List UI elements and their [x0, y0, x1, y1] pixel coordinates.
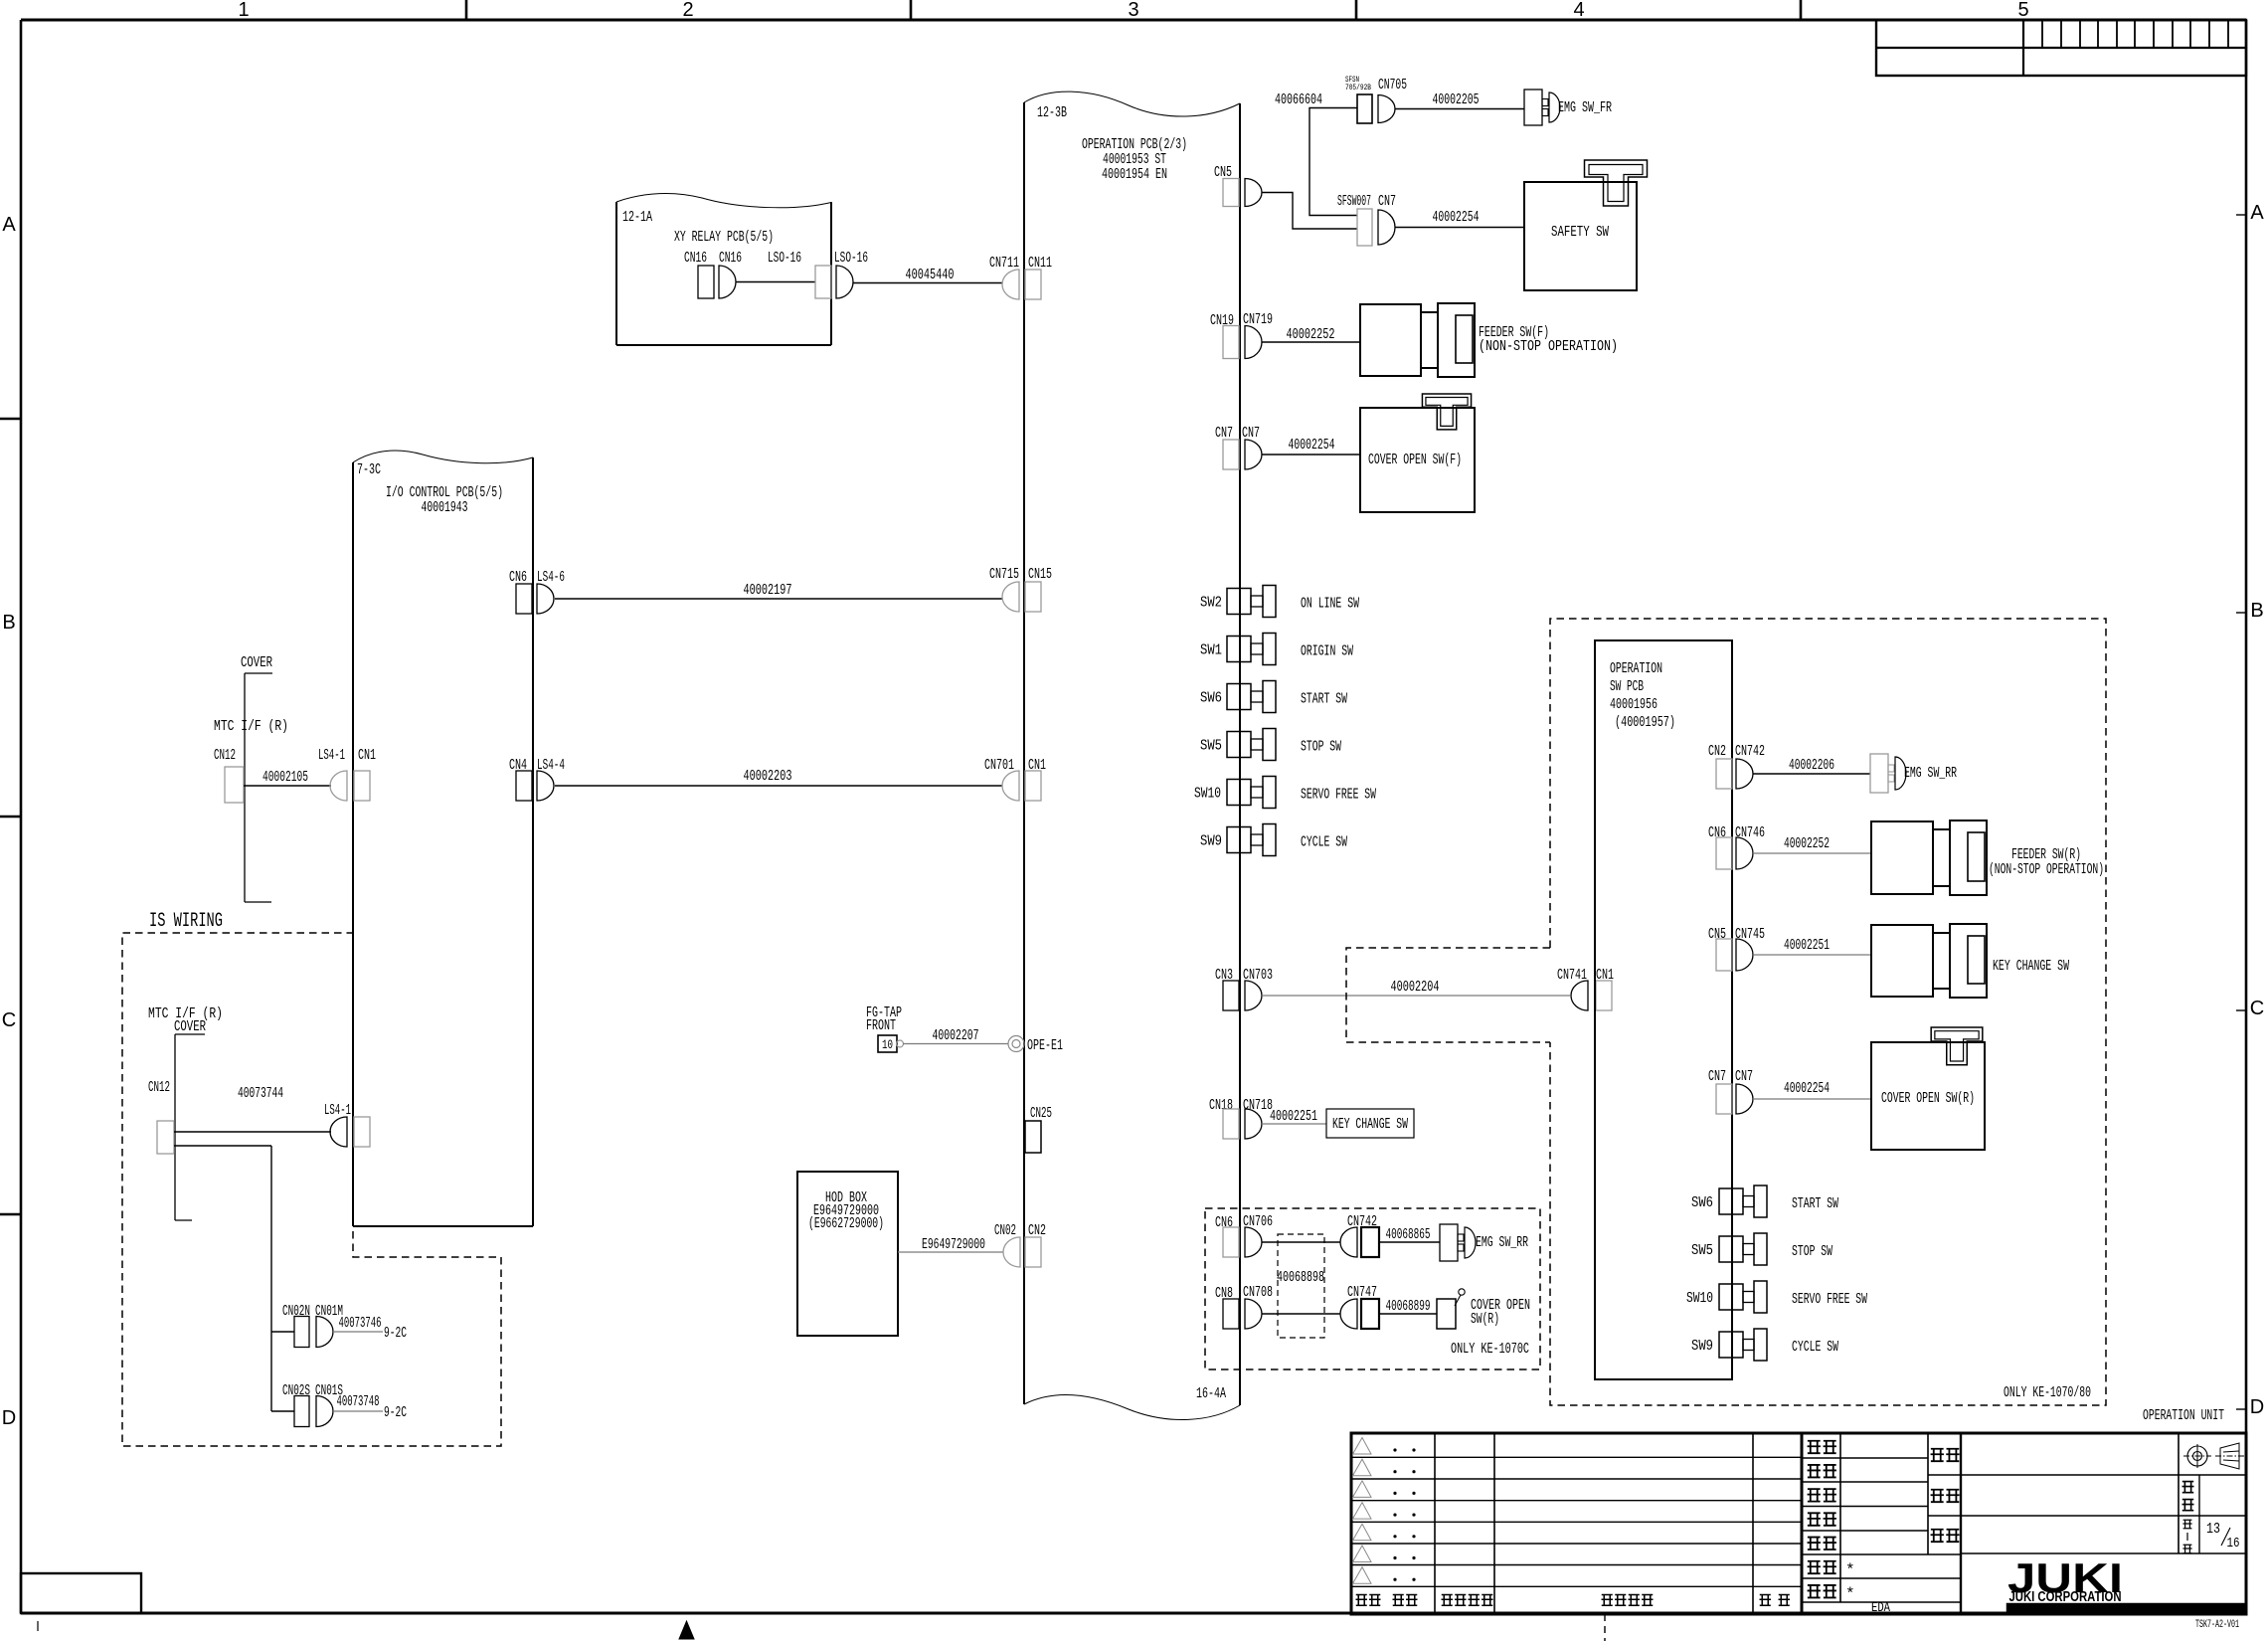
svg-text:40002204: 40002204 [1391, 979, 1440, 996]
svg-text:CN708: CN708 [1243, 1284, 1273, 1301]
svg-text:A: A [2250, 202, 2264, 224]
svg-text:D: D [2250, 1396, 2264, 1418]
svg-text:SERVO FREE SW: SERVO FREE SW [1301, 787, 1376, 804]
wire CN5 to SFSW007 [1262, 193, 1357, 230]
svg-text:CN18: CN18 [1209, 1097, 1233, 1114]
connector CN11 plug [1025, 270, 1041, 299]
svg-text:LSO-16: LSO-16 [768, 250, 801, 267]
svg-text:CN02N: CN02N [282, 1303, 310, 1320]
svg-text:*: * [1845, 1585, 1855, 1603]
svg-text:KEY CHANGE SW: KEY CHANGE SW [1993, 958, 2069, 975]
switch EMG SW_RR symbol 1070C [1440, 1224, 1458, 1261]
svg-text:CN12: CN12 [214, 747, 236, 764]
svg-text:CN7: CN7 [1378, 193, 1396, 210]
connector LS4-1 socket upper [330, 771, 347, 801]
wire 40002251 key change R [1753, 954, 1871, 956]
svg-text:40002203: 40002203 [744, 768, 792, 785]
svg-text:CN02S: CN02S [282, 1382, 310, 1399]
connector CN5 plug right [1716, 939, 1732, 971]
svg-text:COVER: COVER [241, 654, 272, 671]
svg-text:CN16: CN16 [719, 250, 742, 267]
OPERATION SW PCB box [1595, 640, 1732, 1379]
bottom-left corner box [21, 1573, 141, 1613]
logo black bar [2006, 1603, 2246, 1614]
connector CN746 socket [1736, 837, 1753, 869]
svg-text:40002205: 40002205 [1433, 91, 1480, 108]
svg-text:*: * [1845, 1561, 1855, 1579]
svg-text:SW6: SW6 [1691, 1194, 1713, 1211]
connector CN1 plug upper [354, 771, 370, 801]
svg-text:SW9: SW9 [1200, 833, 1222, 850]
svg-text:CN25: CN25 [1030, 1105, 1052, 1122]
operation pcb top torn edge [1024, 91, 1240, 116]
small tick below border left [37, 1621, 39, 1631]
KEY CHANGE SW label box [1326, 1109, 1414, 1138]
connector CN7 socket top [1378, 210, 1395, 245]
connector LS4-1 socket lower [330, 1117, 347, 1147]
svg-text:CN1: CN1 [358, 747, 376, 764]
connector CN706 socket [1245, 1227, 1262, 1257]
operation pcb 12-3B right edge [1239, 103, 1241, 1405]
svg-text:4: 4 [1573, 0, 1584, 21]
connector CN742 plug 1070C [1361, 1227, 1379, 1257]
svg-text:SFSW007: SFSW007 [1337, 193, 1371, 210]
svg-text:CN705: CN705 [1378, 77, 1407, 93]
svg-text:SW6: SW6 [1200, 690, 1222, 707]
labels 型式 品番 品名 [1931, 1449, 1944, 1461]
connector CN745 socket [1736, 939, 1753, 971]
wire 40002203 [555, 785, 1002, 787]
svg-text:LS4-6: LS4-6 [537, 569, 565, 586]
title block revision table lines [1434, 1433, 1436, 1614]
wire 40068899 [1379, 1313, 1437, 1315]
wire 40002205 [1395, 108, 1524, 110]
svg-text:B: B [2, 612, 15, 634]
svg-text:SW1: SW1 [1200, 642, 1222, 659]
svg-text:CN02: CN02 [994, 1222, 1016, 1239]
svg-text:OPE-E1: OPE-E1 [1027, 1037, 1063, 1054]
connector LS4-6 socket [537, 584, 554, 614]
connector CN19 plug [1223, 326, 1239, 359]
svg-text:E9649729000: E9649729000 [922, 1236, 985, 1253]
connector CN1 plug [1025, 771, 1041, 801]
svg-text:40068865: 40068865 [1386, 1226, 1431, 1243]
cover ground line lower [175, 1033, 205, 1035]
connector LSO-16 socket [836, 266, 853, 298]
title block outer frame [1351, 1433, 2246, 1614]
svg-text:COVER OPEN SW(F): COVER OPEN SW(F) [1368, 452, 1462, 468]
svg-text:5: 5 [2017, 0, 2028, 21]
connector CN719 socket [1245, 326, 1262, 359]
svg-text:JUKI CORPORATION: JUKI CORPORATION [2009, 1589, 2122, 1605]
svg-text:A: A [2, 214, 16, 236]
labels 承認 検図 設計 製図 作成 保管 類似 [1808, 1441, 1821, 1453]
svg-text:CN12: CN12 [148, 1079, 170, 1096]
svg-text:40001956: 40001956 [1610, 696, 1657, 713]
svg-text:SW10: SW10 [1686, 1290, 1713, 1307]
approval label column lines [1839, 1433, 1841, 1602]
svg-text:COVER: COVER [174, 1018, 206, 1035]
wire 40002254 cover open R [1753, 1098, 1871, 1100]
switch SW6 right [1719, 1188, 1743, 1214]
connector CN3 plug [1223, 981, 1239, 1010]
switch SW9 [1227, 827, 1251, 853]
switch SW2 [1227, 589, 1251, 615]
revision table triangles and dots [1353, 1438, 1372, 1455]
svg-text:40002251: 40002251 [1784, 937, 1830, 954]
COVER OPEN SW(R) box [1871, 1042, 1985, 1150]
svg-text:START SW: START SW [1792, 1195, 1838, 1212]
wire 40002254 to safety sw [1395, 227, 1524, 229]
HOD BOX [797, 1172, 898, 1336]
svg-text:LS4-1: LS4-1 [318, 747, 345, 764]
key change sw connector icon [1871, 925, 1933, 997]
svg-text:40002254: 40002254 [1784, 1080, 1830, 1097]
bottom center marker triangle [679, 1621, 694, 1639]
svg-text:12-3B: 12-3B [1037, 104, 1067, 121]
connector CN12 plug lower [157, 1121, 174, 1154]
connector CN01M socket [316, 1317, 333, 1348]
svg-text:SERVO FREE SW: SERVO FREE SW [1792, 1291, 1867, 1308]
connector CN16 plug [698, 266, 714, 298]
svg-text:40068899: 40068899 [1386, 1298, 1431, 1315]
svg-text:CN701: CN701 [984, 757, 1014, 774]
svg-text:FRONT: FRONT [866, 1017, 896, 1034]
svg-text:40002254: 40002254 [1289, 437, 1335, 454]
svg-text:COVER OPEN SW(R): COVER OPEN SW(R) [1881, 1090, 1975, 1107]
xy relay pcb 12-1A box [615, 202, 617, 345]
svg-text:40002207: 40002207 [933, 1027, 979, 1044]
svg-text:40073748: 40073748 [337, 1393, 380, 1410]
connector CN7 plug right [1716, 1084, 1732, 1114]
left ruler ticks [0, 418, 21, 421]
connector CN701 socket [1002, 771, 1019, 801]
svg-text:CN7: CN7 [1735, 1068, 1753, 1085]
switch SW5 [1227, 732, 1251, 758]
svg-text:EMG SW_RR: EMG SW_RR [1904, 765, 1957, 782]
wire CN706 to CN742 [1262, 1241, 1340, 1243]
svg-text:CN19: CN19 [1210, 312, 1234, 329]
svg-text:STOP SW: STOP SW [1301, 739, 1341, 756]
svg-text:9-2C: 9-2C [384, 1404, 407, 1421]
svg-text:SW PCB: SW PCB [1610, 678, 1644, 695]
connector CN703 socket [1245, 981, 1262, 1010]
connector CN747 socket [1340, 1299, 1357, 1329]
svg-text:EDA: EDA [1871, 1600, 1890, 1616]
connector CN718 socket [1245, 1109, 1262, 1139]
bottom centerline dashed tick [1604, 1614, 1606, 1641]
connector CN7 socket front [1245, 440, 1262, 469]
svg-text:ORIGIN SW: ORIGIN SW [1301, 643, 1353, 660]
svg-text:40002206: 40002206 [1789, 757, 1834, 774]
svg-text:CN715: CN715 [989, 566, 1019, 583]
svg-text:16: 16 [2227, 1536, 2240, 1551]
connector CN747 plug [1361, 1299, 1379, 1329]
connector CN02 socket [1003, 1237, 1020, 1267]
ONLY KE-1070C dashed box [1205, 1208, 1540, 1369]
svg-text:40002105: 40002105 [262, 769, 308, 786]
wire 40073748 to 9-2C [333, 1410, 383, 1412]
svg-text:(NON-STOP OPERATION): (NON-STOP OPERATION) [1989, 861, 2104, 878]
connector CN2 plug [1025, 1237, 1041, 1267]
connector CN02S plug [294, 1396, 309, 1427]
ONLY KE-1070/80 dashed box [1550, 619, 2106, 1405]
svg-text:40002252: 40002252 [1784, 835, 1830, 852]
connector CN742 socket 1070C [1340, 1227, 1357, 1257]
svg-text:CN745: CN745 [1735, 926, 1765, 943]
svg-text:SW2: SW2 [1200, 595, 1222, 612]
cover ground line upper [245, 672, 272, 674]
svg-text:40068898: 40068898 [1277, 1269, 1324, 1286]
switch SW1 [1227, 637, 1251, 662]
wire 40002207 [903, 1043, 1008, 1045]
switch SW10 right [1719, 1284, 1743, 1310]
svg-text:CN6: CN6 [1215, 1214, 1233, 1231]
svg-text:2: 2 [682, 0, 693, 21]
svg-text:OPERATION UNIT: OPERATION UNIT [2143, 1407, 2224, 1424]
svg-text:40001943: 40001943 [422, 499, 468, 516]
svg-text:KEY CHANGE SW: KEY CHANGE SW [1332, 1116, 1408, 1133]
svg-text:10: 10 [882, 1037, 893, 1052]
connector CN18 plug [1223, 1109, 1239, 1139]
svg-text:SAFETY SW: SAFETY SW [1551, 224, 1609, 241]
wire CN16 to LSO-16 [736, 281, 815, 283]
svg-text:XY RELAY PCB(5/5): XY RELAY PCB(5/5) [674, 229, 774, 246]
wire E9649729000 [898, 1251, 1003, 1253]
label ページ vertical [2182, 1520, 2191, 1529]
svg-text:CN711: CN711 [989, 255, 1019, 272]
connector CN705 plug [1357, 94, 1372, 123]
svg-text:CYCLE SW: CYCLE SW [1301, 834, 1347, 851]
connector CN15 plug [1025, 582, 1041, 612]
connector CN1 plug on i/o pcb edge [354, 1117, 370, 1147]
svg-text:START SW: START SW [1301, 691, 1347, 708]
svg-text:12-1A: 12-1A [622, 209, 652, 226]
connector CN6 plug right [1716, 837, 1732, 869]
svg-text:ONLY KE-1070C: ONLY KE-1070C [1451, 1341, 1529, 1358]
wire 40045440 [853, 282, 1002, 284]
connector CN5 socket [1245, 179, 1262, 207]
svg-text:40073746: 40073746 [339, 1315, 382, 1332]
svg-text:705/92B: 705/92B [1345, 84, 1371, 92]
svg-text:LSO-16: LSO-16 [834, 250, 868, 267]
wire 40002204 [1262, 995, 1570, 997]
svg-text:C: C [2250, 998, 2264, 1019]
svg-text:CN718: CN718 [1243, 1097, 1273, 1114]
connector CN25 plug [1025, 1121, 1041, 1153]
svg-text:D: D [2, 1407, 16, 1429]
connector CN8 plug [1223, 1299, 1239, 1329]
wire 40002251 key change F [1262, 1123, 1326, 1125]
svg-text:CYCLE SW: CYCLE SW [1792, 1339, 1838, 1356]
model row lines 型式 品番 品名 [1928, 1474, 2246, 1476]
svg-text:SW5: SW5 [1200, 738, 1222, 755]
safety sw key icon [1585, 160, 1648, 206]
cover open F key icon [1422, 394, 1471, 430]
svg-text:40066604: 40066604 [1275, 91, 1322, 108]
top ruler ticks [465, 0, 468, 20]
connector LSO-16 plug [815, 266, 831, 298]
svg-text:3: 3 [1128, 0, 1138, 21]
top-right revision strip table [1876, 20, 2246, 76]
svg-text:CN5: CN5 [1708, 926, 1726, 943]
switch SW6 [1227, 684, 1251, 710]
wire 40002206 [1753, 773, 1870, 775]
connector LS4-4 socket [537, 771, 554, 801]
connector CN7 socket right [1736, 1084, 1753, 1114]
svg-text:ONLY KE-1070/80: ONLY KE-1070/80 [2004, 1384, 2091, 1401]
dashed cable box 40068898 [1278, 1234, 1324, 1338]
wire CN12 branch down [174, 1145, 271, 1147]
svg-text:SW10: SW10 [1194, 786, 1221, 803]
wire 40002252 feeder R [1753, 852, 1871, 854]
wire branch to CN02S [271, 1410, 294, 1412]
svg-text:13: 13 [2206, 1521, 2220, 1538]
svg-text:CN2: CN2 [1708, 743, 1726, 760]
svg-text:CN742: CN742 [1735, 743, 1765, 760]
connector CN741 socket [1571, 981, 1588, 1010]
connector SFSW007 plug [1357, 209, 1372, 246]
border frame outer [21, 19, 2246, 22]
label 尺度 vertical [2182, 1482, 2194, 1493]
svg-text:EMG SW_FR: EMG SW_FR [1558, 99, 1612, 116]
switch COVER OPEN SW(R) symbol small [1437, 1299, 1456, 1329]
switch EMG SW_FR symbol [1524, 90, 1542, 125]
connector CN711 socket [1002, 270, 1019, 299]
COVER OPEN SW(F) box [1360, 408, 1475, 512]
svg-text:40073744: 40073744 [238, 1085, 283, 1102]
connector CN4 plug [516, 771, 532, 801]
svg-text:9-2C: 9-2C [384, 1325, 407, 1342]
connector CN6 plug [516, 584, 532, 614]
wire 40002197 [555, 598, 1002, 600]
connector CN6 plug 1070C [1223, 1227, 1239, 1257]
svg-text:SW5: SW5 [1691, 1242, 1713, 1259]
svg-text:40001954 EN: 40001954 EN [1102, 166, 1167, 183]
operation pcb 12-3B left edge [1023, 102, 1025, 1404]
connector CN742 socket right [1736, 759, 1753, 789]
switch SW10 [1227, 780, 1251, 806]
svg-text:C: C [2, 1009, 16, 1031]
connector CN2 plug right [1716, 759, 1732, 789]
svg-text:CN6: CN6 [1708, 824, 1726, 841]
svg-text:1: 1 [238, 0, 249, 21]
svg-text:40002252: 40002252 [1287, 326, 1335, 343]
svg-text:(40001957): (40001957) [1615, 714, 1675, 731]
svg-text:16-4A: 16-4A [1196, 1385, 1226, 1402]
svg-text:40002197: 40002197 [744, 582, 792, 599]
wire 40073746 to 9-2C [333, 1331, 383, 1333]
fg-tap terminal box 10 [878, 1035, 897, 1052]
svg-text:40045440: 40045440 [906, 267, 955, 283]
connector CN5 plug [1223, 179, 1239, 207]
svg-text:(E9662729000): (E9662729000) [808, 1215, 884, 1232]
SAFETY SW box [1524, 182, 1637, 290]
svg-text:TSK7-A2-V01: TSK7-A2-V01 [2195, 1619, 2239, 1631]
wire 40068865 [1379, 1241, 1440, 1243]
wire 40002252 feeder F [1262, 341, 1360, 343]
terminal OPE-E1 [1008, 1036, 1024, 1052]
wire 40066604 branch [1309, 108, 1357, 216]
svg-text:CN746: CN746 [1735, 824, 1765, 841]
svg-text:STOP SW: STOP SW [1792, 1243, 1832, 1260]
feeder sw F connector icon [1360, 304, 1421, 376]
operation pcb bottom torn edge [1024, 1394, 1240, 1419]
IS WIRING dashed boundary [122, 933, 501, 1446]
revision header 記号 日付 変更番号 変更記事 担当 [1356, 1595, 1368, 1606]
connector CN16 socket [719, 266, 736, 298]
dashed enclosure around wire 40002204 [1346, 948, 1550, 1042]
svg-text:CN15: CN15 [1028, 566, 1052, 583]
connector CN02N plug [294, 1317, 309, 1348]
svg-text:IS WIRING: IS WIRING [149, 910, 223, 933]
feeder sw R connector icon [1871, 821, 1933, 894]
connector CN705 socket [1378, 95, 1395, 123]
svg-text:ON LINE SW: ON LINE SW [1301, 596, 1359, 613]
svg-text:OPERATION: OPERATION [1610, 660, 1662, 677]
wire 40002254 cover open F [1262, 454, 1360, 456]
i/o control pcb 7-3C box [352, 462, 354, 1226]
connector CN715 socket [1002, 582, 1019, 612]
projection method symbol [2187, 1446, 2207, 1466]
svg-text:MTC I/F (R): MTC I/F (R) [214, 718, 288, 735]
svg-text:CN7: CN7 [1708, 1068, 1726, 1085]
connector CN708 socket [1245, 1299, 1262, 1329]
svg-text:40002251: 40002251 [1270, 1108, 1317, 1125]
connector CN1 plug right [1596, 981, 1612, 1010]
svg-text:(NON-STOP OPERATION): (NON-STOP OPERATION) [1479, 338, 1618, 355]
svg-text:SW9: SW9 [1691, 1338, 1713, 1355]
svg-text:40002254: 40002254 [1433, 209, 1480, 226]
svg-text:EMG SW_RR: EMG SW_RR [1476, 1234, 1528, 1251]
cover open R key icon [1931, 1027, 1983, 1065]
connector CN7 plug front [1223, 440, 1239, 469]
wire 40002105 [244, 785, 331, 787]
connector CN12 plug upper [225, 767, 244, 803]
connector CN01S socket [316, 1396, 333, 1427]
svg-text:B: B [2250, 600, 2263, 622]
switch EMG SW_RR symbol right [1870, 754, 1888, 793]
svg-text:SW(R): SW(R) [1471, 1311, 1499, 1328]
wire 40073744 [174, 1131, 331, 1133]
svg-text:CN16: CN16 [684, 250, 707, 267]
wire CN708 to CN747 [1262, 1313, 1340, 1315]
wire branch to CN02N [271, 1331, 294, 1333]
svg-text:7-3C: 7-3C [357, 461, 381, 478]
switch SW9 right [1719, 1332, 1743, 1358]
switch SW5 right [1719, 1236, 1743, 1262]
